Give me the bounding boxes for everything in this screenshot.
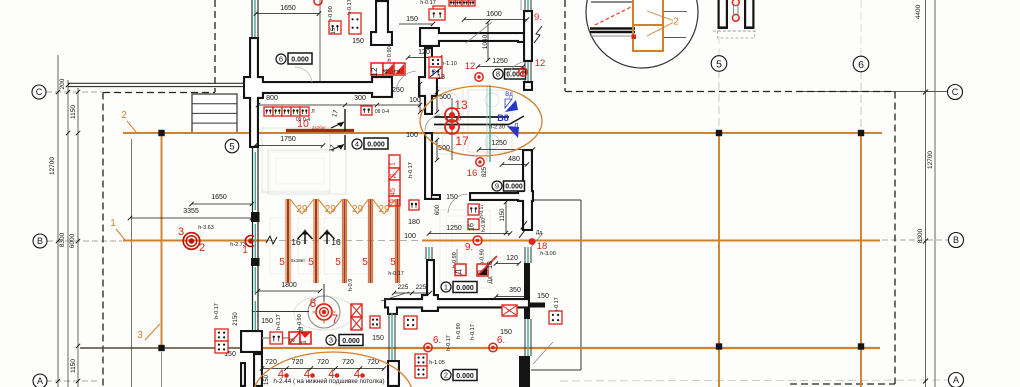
svg-text:12: 12 <box>370 67 379 76</box>
svg-text:100: 100 <box>406 132 418 139</box>
svg-text:12700: 12700 <box>49 157 56 175</box>
svg-text:16: 16 <box>467 168 478 179</box>
svg-text:9.: 9. <box>465 242 473 253</box>
svg-text:29: 29 <box>325 204 337 215</box>
svg-text:5x18вт: 5x18вт <box>291 258 305 263</box>
svg-text:6.: 6. <box>497 335 505 346</box>
svg-text:29: 29 <box>378 204 390 215</box>
svg-text:C: C <box>952 87 959 97</box>
svg-text:В8: В8 <box>497 113 509 123</box>
svg-text:200: 200 <box>59 78 66 89</box>
svg-text:4: 4 <box>278 369 285 381</box>
svg-text:17: 17 <box>455 134 469 148</box>
svg-text:2x2бат: 2x2бат <box>312 125 326 130</box>
svg-text:250: 250 <box>392 87 404 94</box>
svg-text:0.000: 0.000 <box>291 56 309 63</box>
svg-text:180: 180 <box>408 219 420 226</box>
svg-text:720: 720 <box>317 359 329 366</box>
svg-text:h-2.30: h-2.30 <box>489 125 505 131</box>
svg-text:h-0.90: h-0.90 <box>456 323 462 339</box>
svg-text:150: 150 <box>264 374 270 385</box>
svg-text:5: 5 <box>229 141 234 152</box>
svg-text:16: 16 <box>291 237 301 247</box>
svg-text:120: 120 <box>418 49 430 56</box>
svg-text:0.000: 0.000 <box>505 183 523 190</box>
svg-text:9.: 9. <box>534 12 542 23</box>
svg-text:Л3: Л3 <box>299 327 305 333</box>
svg-text:5: 5 <box>362 257 368 268</box>
svg-text:C: C <box>36 87 43 97</box>
svg-text:720: 720 <box>292 359 304 366</box>
svg-text:18: 18 <box>537 241 548 252</box>
svg-text:09 0-4: 09 0-4 <box>296 117 310 123</box>
svg-text:1650: 1650 <box>280 5 296 12</box>
svg-text:18: 18 <box>487 261 494 269</box>
svg-text:Дд: Дд <box>488 276 494 284</box>
svg-text:0.000: 0.000 <box>456 373 474 380</box>
svg-text:350: 350 <box>509 287 521 294</box>
svg-text:h 0.90: h 0.90 <box>387 46 393 61</box>
svg-text:1600: 1600 <box>486 11 502 18</box>
svg-text:29: 29 <box>296 204 308 215</box>
svg-text:2: 2 <box>444 371 448 380</box>
svg-text:8: 8 <box>310 296 317 310</box>
svg-text:150: 150 <box>352 38 364 45</box>
svg-text:6: 6 <box>279 55 283 64</box>
svg-text:1: 1 <box>393 68 402 73</box>
svg-text:1650: 1650 <box>211 194 227 201</box>
svg-text:h-0.17: h-0.17 <box>408 162 414 178</box>
svg-text:6000: 6000 <box>69 233 76 248</box>
svg-text:720: 720 <box>342 359 354 366</box>
svg-text:Л: Л <box>311 109 314 115</box>
svg-text:1: 1 <box>110 218 116 229</box>
svg-text:A: A <box>953 375 959 385</box>
svg-text:Вд: Вд <box>505 92 513 98</box>
svg-text:5: 5 <box>335 257 341 268</box>
svg-text:300: 300 <box>354 95 366 102</box>
svg-text:100: 100 <box>409 97 421 104</box>
svg-text:h-0.17: h-0.17 <box>446 335 452 351</box>
svg-text:h-0.17: h-0.17 <box>420 0 436 6</box>
svg-text:600: 600 <box>435 204 441 215</box>
svg-text:1: 1 <box>390 162 397 166</box>
svg-text:15: 15 <box>331 27 337 34</box>
svg-text:8: 8 <box>496 70 500 79</box>
svg-text:150: 150 <box>406 16 418 23</box>
svg-text:225: 225 <box>416 284 427 291</box>
svg-text:150: 150 <box>261 318 273 325</box>
svg-text:8300: 8300 <box>917 228 924 243</box>
svg-text:5: 5 <box>390 257 396 268</box>
svg-text:A: A <box>37 376 43 386</box>
svg-text:1800: 1800 <box>281 282 297 289</box>
svg-text:3: 3 <box>137 330 143 341</box>
svg-text:8300: 8300 <box>59 232 66 247</box>
svg-text:225: 225 <box>398 284 409 291</box>
svg-text:825: 825 <box>482 166 488 177</box>
svg-text:h-0.17: h-0.17 <box>470 324 476 340</box>
svg-text:0.000: 0.000 <box>367 141 385 148</box>
svg-text:1: 1 <box>242 245 248 256</box>
svg-text:Д: Д <box>456 269 463 274</box>
svg-text:2: 2 <box>121 110 127 121</box>
svg-text:1: 1 <box>444 283 448 292</box>
svg-text:4: 4 <box>354 369 361 381</box>
svg-text:480: 480 <box>508 156 520 163</box>
svg-text:12: 12 <box>535 58 546 69</box>
svg-text:16: 16 <box>469 223 476 231</box>
svg-text:12: 12 <box>465 61 476 72</box>
svg-text:29: 29 <box>352 204 364 215</box>
svg-text:720: 720 <box>367 359 379 366</box>
svg-text:2: 2 <box>199 242 205 254</box>
svg-text:1150: 1150 <box>70 105 77 119</box>
svg-text:B: B <box>37 236 43 246</box>
svg-text:3: 3 <box>178 226 184 238</box>
svg-text:3: 3 <box>329 336 333 345</box>
svg-text:4: 4 <box>304 369 311 381</box>
svg-text:5: 5 <box>716 58 722 70</box>
svg-text:800: 800 <box>266 95 278 102</box>
svg-text:1750: 1750 <box>280 136 296 143</box>
svg-text:1250: 1250 <box>446 225 462 232</box>
svg-text:0.000: 0.000 <box>456 285 474 292</box>
svg-text:0.000: 0.000 <box>342 338 360 345</box>
svg-text:9: 9 <box>390 199 397 203</box>
svg-text:9: 9 <box>495 182 499 191</box>
svg-text:09 0-4: 09 0-4 <box>375 109 389 115</box>
svg-text:4: 4 <box>382 68 391 73</box>
svg-text:13: 13 <box>454 98 468 112</box>
svg-text:5: 5 <box>279 257 285 268</box>
svg-text:1150: 1150 <box>70 359 77 373</box>
svg-text:1250: 1250 <box>491 140 507 147</box>
svg-text:45: 45 <box>390 188 397 196</box>
svg-text:h-0.9: h-0.9 <box>348 279 354 292</box>
svg-text:h-0.90: h-0.90 <box>328 6 334 22</box>
svg-text:120: 120 <box>506 255 518 262</box>
svg-text:h-1.10: h-1.10 <box>441 61 457 67</box>
svg-text:4: 4 <box>328 369 335 381</box>
svg-text:В: В <box>432 70 436 76</box>
svg-text:4: 4 <box>355 140 359 149</box>
svg-text:7: 7 <box>332 312 339 326</box>
svg-text:h-0.90: h-0.90 <box>481 218 487 232</box>
svg-text:6.: 6. <box>433 335 441 346</box>
svg-text:150: 150 <box>537 293 549 300</box>
svg-text:4400: 4400 <box>915 4 922 19</box>
svg-text:1: 1 <box>301 340 308 344</box>
svg-text:h-3.63: h-3.63 <box>198 225 214 231</box>
svg-text:1150: 1150 <box>500 208 506 222</box>
svg-text:6: 6 <box>858 59 864 71</box>
svg-text:h-0.17: h-0.17 <box>214 303 220 319</box>
svg-text:5: 5 <box>308 257 314 268</box>
svg-text:h-1.05: h-1.05 <box>429 360 445 366</box>
svg-text:h-0.90: h-0.90 <box>480 249 486 265</box>
svg-text:1250: 1250 <box>492 58 508 65</box>
svg-text:h-0.17: h-0.17 <box>276 314 282 330</box>
svg-text:h-0.17: h-0.17 <box>388 271 404 277</box>
svg-text:B: B <box>953 235 959 245</box>
svg-text:12700: 12700 <box>927 151 934 169</box>
svg-text:100: 100 <box>404 233 416 240</box>
svg-text:13: 13 <box>437 74 445 81</box>
svg-text:Дд: Дд <box>536 230 542 236</box>
svg-text:3355: 3355 <box>183 208 199 215</box>
svg-text:2: 2 <box>673 17 679 28</box>
svg-text:16: 16 <box>331 237 341 247</box>
svg-text:2150: 2150 <box>233 312 239 326</box>
svg-text:150: 150 <box>372 335 384 342</box>
svg-text:h-0.17: h-0.17 <box>479 204 485 218</box>
